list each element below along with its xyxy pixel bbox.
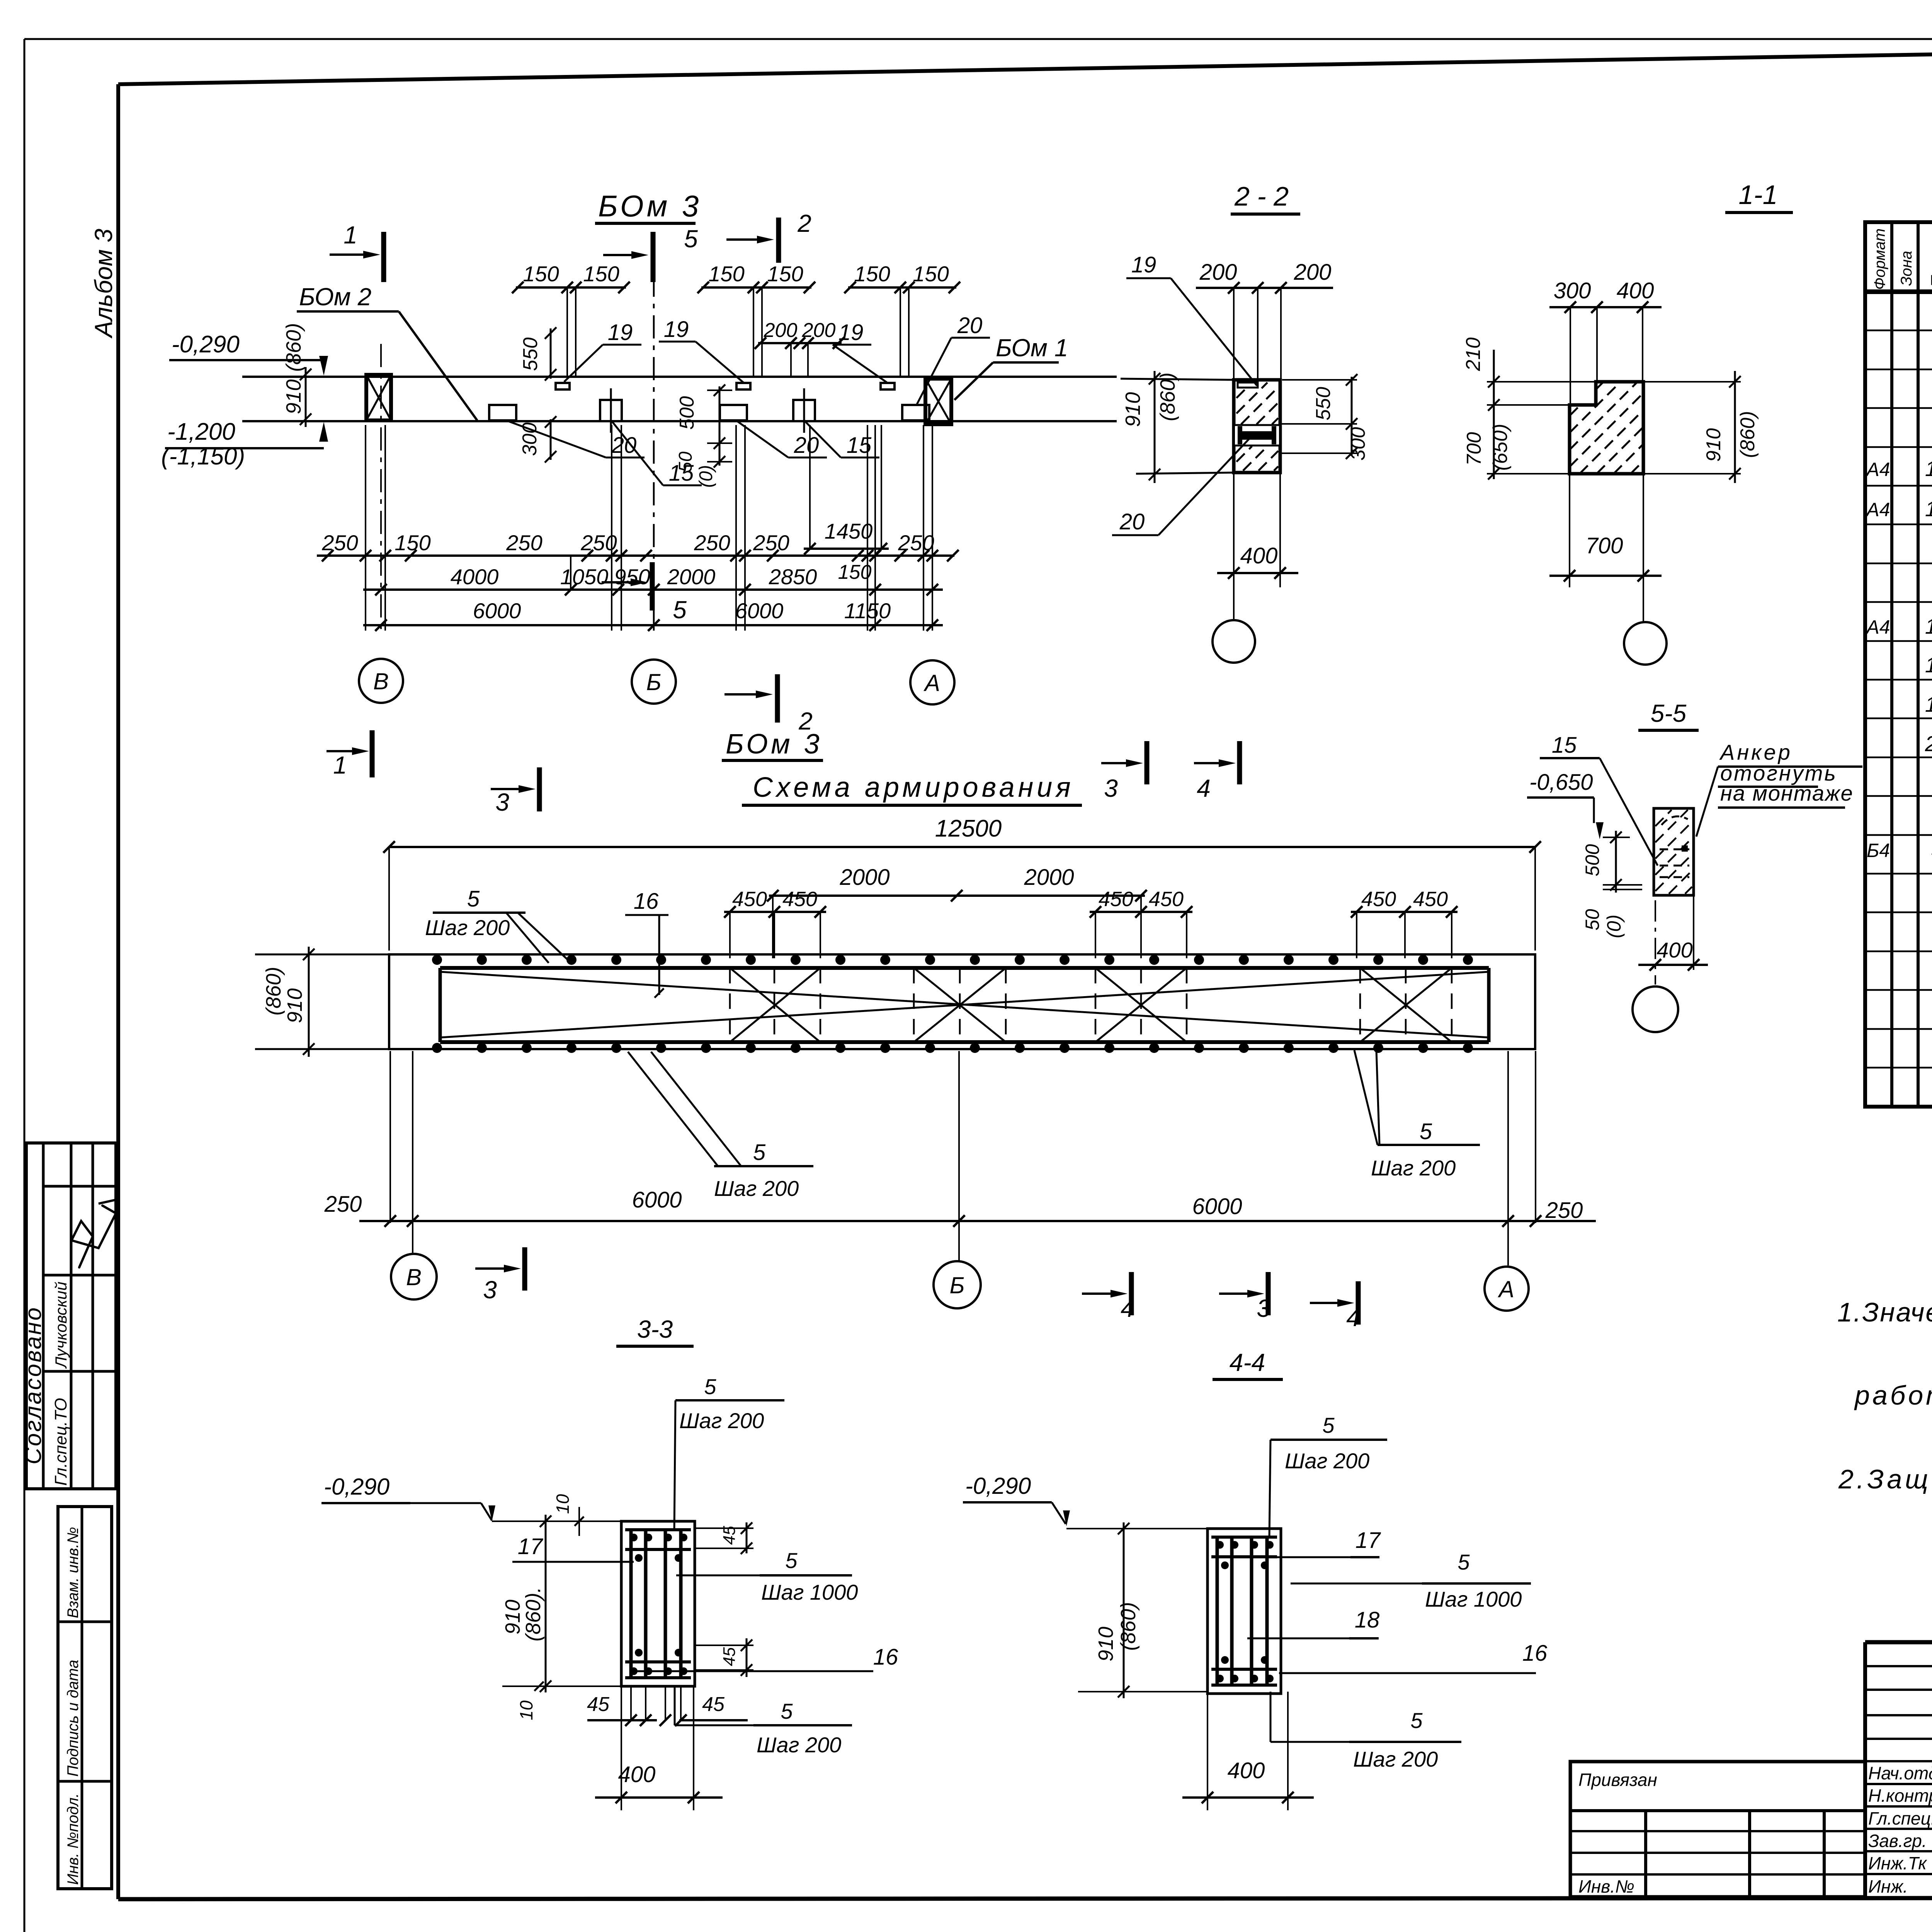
section 5-5 anchor dashes	[1660, 849, 1689, 850]
vertical dim 910 (860) plan left	[305, 367, 307, 427]
svg-text:1: 1	[344, 221, 357, 249]
svg-text:6000: 6000	[473, 599, 521, 623]
svg-text:450: 450	[782, 888, 817, 911]
svg-text:2000: 2000	[667, 565, 716, 589]
svg-text:(860): (860)	[1117, 1602, 1140, 1651]
vertical dim 500 / 50(0)	[719, 386, 721, 466]
schema reinforcement cage bars	[440, 966, 1489, 970]
svg-text:910: 910	[283, 988, 306, 1023]
svg-text:500: 500	[676, 396, 698, 430]
section 5-5 dim 500	[1603, 837, 1630, 838]
svg-text:550: 550	[1312, 387, 1335, 420]
svg-text:1150: 1150	[844, 599, 891, 623]
extension lines to section 2-2	[1121, 379, 1234, 380]
schema extension verticals at axes	[389, 1051, 391, 1223]
spec table row lines	[1865, 330, 1932, 332]
left stamp group 2 (inventory)	[58, 1507, 112, 1889]
section 3-3 dim 910 (860)	[545, 1515, 547, 1692]
svg-text:Шаг 200: Шаг 200	[1371, 1156, 1456, 1180]
extension verticals below beam	[365, 425, 366, 631]
svg-text:20: 20	[794, 433, 819, 458]
svg-text:5: 5	[1458, 1550, 1470, 1574]
svg-text:12500: 12500	[935, 815, 1002, 842]
svg-text:5: 5	[1420, 1119, 1432, 1144]
svg-text:Б: Б	[646, 669, 661, 695]
schema long diagonal bars	[440, 972, 1489, 1037]
svg-text:А4: А4	[1865, 499, 1890, 520]
axis circle В	[359, 659, 403, 703]
svg-text:17: 17	[518, 1534, 544, 1559]
axis circle А	[910, 660, 954, 704]
dim row 2 (4000/1050/950/2000/2850)	[363, 588, 943, 591]
svg-text:20: 20	[1119, 509, 1145, 534]
svg-text:15: 15	[669, 461, 694, 486]
svg-text:550: 550	[519, 337, 542, 371]
svg-text:(0): (0)	[696, 465, 716, 488]
svg-text:50: 50	[1582, 909, 1603, 930]
embedded plate 19 (x3)	[556, 383, 570, 389]
svg-text:Б4: Б4	[1867, 840, 1890, 861]
svg-text:(860): (860)	[262, 967, 285, 1015]
svg-text:3-3: 3-3	[637, 1315, 673, 1343]
svg-text:1450: 1450	[825, 519, 873, 543]
svg-text:10: 10	[553, 1494, 573, 1514]
svg-text:Шаг 1000: Шаг 1000	[1425, 1587, 1522, 1611]
svg-text:3: 3	[1104, 774, 1118, 802]
svg-text:Гл.спец.: Гл.спец.	[1868, 1808, 1932, 1828]
svg-text:5: 5	[781, 1699, 793, 1723]
spec table frame	[1865, 222, 1932, 1107]
svg-text:5: 5	[1410, 1708, 1423, 1733]
svg-text:Шаг 200: Шаг 200	[714, 1176, 799, 1201]
svg-text:4-4: 4-4	[1230, 1349, 1265, 1376]
Привязан strip table	[1570, 1762, 1865, 1897]
svg-text:1.Значения в скобках для о: 1.Значения в скобках для открытого спосо…	[1837, 1297, 1932, 1327]
svg-text:250: 250	[1545, 1198, 1583, 1223]
section 4-4 dim 910 (860)	[1123, 1522, 1125, 1698]
svg-text:(650): (650)	[1489, 424, 1512, 471]
svg-text:910: 910	[1094, 1627, 1117, 1662]
svg-text:250: 250	[324, 1192, 362, 1217]
schema X cross panels	[730, 968, 820, 1042]
svg-text:Нач.отд.: Нач.отд.	[1868, 1763, 1932, 1783]
svg-text:250: 250	[753, 531, 789, 555]
section 2-2 plate 19 notch	[1238, 383, 1258, 388]
svg-text:19: 19	[608, 320, 633, 345]
svg-text:(860).: (860).	[522, 1587, 545, 1641]
svg-text:450: 450	[1361, 888, 1396, 911]
schema left extension lines	[255, 954, 389, 956]
svg-text:Схема армирования: Схема армирования	[753, 772, 1074, 803]
svg-text:5: 5	[467, 886, 480, 912]
axis circle Б	[632, 660, 676, 704]
svg-text:250: 250	[694, 531, 730, 555]
section 1-1 dim 700 (650)	[1487, 473, 1570, 474]
svg-text:1-1: 1-1	[1738, 180, 1777, 210]
schema stirrup dashed lines	[729, 968, 731, 1042]
svg-text:БОм 1: БОм 1	[996, 334, 1068, 362]
svg-text:БОм 2: БОм 2	[299, 283, 371, 311]
section 1-1 body (L-shape)	[1570, 382, 1643, 474]
section 4-4 stirrup bars	[1211, 1555, 1277, 1558]
svg-text:2000: 2000	[839, 865, 889, 890]
svg-text:Согласовано: Согласовано	[20, 1306, 46, 1464]
section 3-3 dim 45 (top right)	[695, 1527, 753, 1529]
svg-text:16: 16	[1522, 1641, 1548, 1666]
svg-text:20: 20	[1925, 731, 1932, 756]
svg-text:Формат: Формат	[1871, 228, 1888, 290]
spec table column lines	[1890, 222, 1893, 1107]
svg-text:17: 17	[1925, 497, 1932, 521]
svg-text:работ в сборно-монолитном в: работ в сборно-монолитном варианте.	[1854, 1380, 1932, 1410]
spec table header bottom line	[1865, 289, 1932, 294]
svg-text:6000: 6000	[1192, 1194, 1242, 1219]
svg-text:5: 5	[673, 596, 687, 624]
section 3-3 rebar dots	[630, 1534, 638, 1541]
svg-text:(860): (860)	[1156, 372, 1179, 421]
title block frame	[1865, 1640, 1932, 1645]
svg-text:400: 400	[1656, 938, 1692, 962]
svg-text:5-5: 5-5	[1651, 699, 1687, 727]
svg-text:450: 450	[1413, 888, 1448, 911]
svg-text:5: 5	[704, 1374, 716, 1399]
svg-text:16: 16	[873, 1645, 898, 1670]
svg-text:2850: 2850	[769, 565, 817, 589]
column box БОм2 with cross	[366, 375, 391, 420]
svg-text:910: 910	[1702, 428, 1725, 462]
svg-text:Инв. №подл.: Инв. №подл.	[65, 1793, 82, 1885]
svg-text:5: 5	[753, 1140, 766, 1165]
vertical dim 550	[550, 328, 552, 379]
schema beam outline	[389, 954, 1535, 1049]
section 3-3 dim 10 (bottom left)	[502, 1685, 621, 1687]
svg-text:910: 910	[282, 379, 305, 414]
svg-text:2000: 2000	[1024, 865, 1074, 890]
name row lines	[1865, 1783, 1932, 1785]
svg-text:400: 400	[1240, 543, 1278, 568]
svg-text:В: В	[406, 1264, 422, 1290]
svg-text:2.Защитный слой бетона для: 2.Защитный слой бетона для рабочей армат…	[1838, 1464, 1932, 1494]
schema bottom dim 250/6000/6000/250	[359, 1220, 1596, 1222]
svg-text:18: 18	[1355, 1607, 1380, 1633]
svg-text:5: 5	[684, 225, 698, 253]
svg-text:200: 200	[1294, 260, 1332, 285]
svg-text:5: 5	[785, 1548, 798, 1573]
section 5-5 body	[1654, 808, 1694, 895]
dim row 1 (250/150...)	[317, 554, 954, 557]
svg-text:А: А	[1498, 1276, 1514, 1302]
svg-text:А4: А4	[1865, 459, 1890, 480]
section 1-1 axis circle	[1624, 622, 1667, 665]
svg-text:19: 19	[664, 317, 689, 342]
svg-text:200: 200	[1199, 260, 1237, 285]
svg-text:Шаг 200: Шаг 200	[1285, 1449, 1369, 1473]
svg-text:2 - 2: 2 - 2	[1234, 181, 1289, 211]
svg-text:450: 450	[732, 888, 767, 911]
dim row 3 (6000/6000/1150)	[363, 624, 943, 626]
axis А dash-dot	[932, 429, 933, 634]
svg-text:150: 150	[913, 262, 949, 286]
signature squiggle	[71, 1206, 116, 1267]
svg-text:400: 400	[1617, 278, 1654, 303]
svg-text:Шаг 200: Шаг 200	[425, 915, 510, 940]
svg-text:10: 10	[516, 1700, 536, 1720]
svg-text:150: 150	[854, 262, 890, 286]
embedded plate 20 (x3)	[489, 405, 516, 420]
svg-text:210: 210	[1462, 337, 1485, 371]
svg-text:-1,200: -1,200	[167, 418, 235, 445]
svg-text:250: 250	[506, 531, 542, 555]
svg-text:БОм 3: БОм 3	[598, 189, 702, 223]
svg-text:200: 200	[764, 319, 798, 342]
svg-text:150: 150	[767, 262, 803, 286]
svg-text:20: 20	[957, 313, 983, 338]
svg-text:Шаг 1000: Шаг 1000	[761, 1580, 858, 1604]
svg-text:Шаг 200: Шаг 200	[1353, 1747, 1438, 1771]
svg-text:500: 500	[1582, 844, 1603, 876]
svg-text:18: 18	[1925, 614, 1932, 638]
svg-text:16: 16	[634, 889, 659, 914]
svg-text:5: 5	[1322, 1413, 1335, 1437]
svg-text:300: 300	[1347, 427, 1369, 461]
svg-text:15: 15	[1925, 653, 1932, 677]
svg-text:Шаг 200: Шаг 200	[757, 1733, 841, 1757]
plan beam top edge	[242, 376, 1117, 378]
schema rebar dots top	[432, 955, 442, 965]
svg-text:В: В	[373, 668, 389, 694]
svg-text:Шаг 200: Шаг 200	[679, 1408, 764, 1433]
svg-text:450: 450	[1149, 888, 1184, 911]
svg-text:Зона: Зона	[1898, 251, 1915, 286]
svg-text:150: 150	[838, 561, 872, 583]
plan beam bottom edge	[242, 420, 1117, 422]
svg-text:-0,290: -0,290	[172, 331, 240, 358]
svg-text:300: 300	[519, 422, 541, 456]
section 3-3 dim 45 (bottom right)	[695, 1645, 753, 1646]
svg-text:400: 400	[1228, 1758, 1265, 1783]
svg-text:А: А	[923, 670, 940, 696]
svg-text:1050: 1050	[560, 565, 609, 589]
schema axis circle В	[391, 1254, 437, 1299]
svg-text:15: 15	[1552, 733, 1577, 758]
svg-text:3: 3	[483, 1276, 497, 1304]
svg-text:Зав.гр.: Зав.гр.	[1868, 1831, 1927, 1851]
svg-text:450: 450	[1099, 888, 1133, 911]
svg-text:А4: А4	[1865, 616, 1890, 638]
svg-text:4: 4	[1197, 774, 1211, 802]
section 3-3 body	[621, 1521, 695, 1686]
title block upper small rows (left part)	[1865, 1665, 1932, 1667]
svg-text:250: 250	[898, 531, 934, 555]
svg-text:250: 250	[580, 531, 617, 555]
left stamp group 1 (Согласовано)	[26, 1143, 116, 1489]
svg-text:300: 300	[1554, 278, 1591, 303]
schema axis circle Б	[934, 1261, 981, 1308]
svg-text:Поз.: Поз.	[1927, 252, 1932, 288]
section 5-5 axis + circle	[1655, 900, 1656, 985]
svg-text:6000: 6000	[735, 599, 784, 623]
section 4-4 body	[1207, 1529, 1281, 1694]
svg-text:19: 19	[1131, 252, 1156, 277]
svg-text:3: 3	[495, 788, 509, 816]
svg-text:Инв.№: Инв.№	[1578, 1876, 1634, 1896]
svg-text:(0): (0)	[1603, 915, 1625, 938]
svg-text:200: 200	[802, 319, 836, 342]
svg-text:4000: 4000	[451, 565, 499, 589]
svg-text:Б: Б	[949, 1272, 964, 1298]
svg-text:Взам. инв.№: Взам. инв.№	[65, 1527, 82, 1618]
inner drawing frame	[116, 84, 120, 1899]
schema vertical dim 910 (860)	[308, 947, 310, 1057]
svg-text:Лучковский: Лучковский	[52, 1282, 70, 1369]
axis В dash-dot	[380, 344, 382, 630]
svg-text:45: 45	[587, 1693, 610, 1716]
svg-text:45: 45	[720, 1526, 739, 1545]
section 2-2 embedded plate (item 20)	[1235, 425, 1279, 446]
section 2-2 vertical dim 550/300	[1282, 379, 1357, 381]
svg-text:-0,290: -0,290	[965, 1473, 1031, 1499]
section 1-1 dim 210	[1487, 381, 1596, 383]
section 2-2 body	[1234, 380, 1280, 473]
svg-text:Привязан: Привязан	[1578, 1770, 1657, 1790]
svg-text:-0,290: -0,290	[324, 1474, 389, 1500]
svg-text:150: 150	[583, 262, 619, 286]
svg-text:700: 700	[1586, 533, 1623, 558]
svg-text:19: 19	[838, 320, 864, 345]
svg-text:Инж.Тк: Инж.Тк	[1868, 1853, 1927, 1873]
svg-text:700: 700	[1463, 432, 1485, 466]
svg-text:2: 2	[797, 209, 811, 237]
svg-text:910: 910	[1121, 392, 1145, 427]
svg-text:150: 150	[708, 262, 744, 286]
svg-text:Альбом 3: Альбом 3	[90, 228, 117, 339]
svg-text:45: 45	[720, 1647, 739, 1666]
svg-text:250: 250	[321, 531, 358, 555]
svg-text:150: 150	[523, 262, 559, 286]
svg-text:(860): (860)	[282, 323, 305, 372]
svg-text:150: 150	[395, 531, 430, 555]
axis Б dash-dot	[653, 232, 655, 634]
column box БОм1 with cross	[925, 379, 951, 424]
section 4-4 rebar dots	[1216, 1541, 1224, 1549]
svg-text:Инж.: Инж.	[1868, 1876, 1908, 1896]
section 1-1 dim 910 (860) right	[1643, 381, 1741, 383]
svg-text:45: 45	[702, 1693, 725, 1716]
vertical dim 910 (860) between plan and section 2-2	[1154, 371, 1156, 483]
svg-text:19: 19	[1925, 692, 1932, 716]
svg-text:400: 400	[618, 1762, 656, 1787]
vertical dim 300	[550, 419, 552, 460]
svg-text:-0,650: -0,650	[1529, 770, 1593, 795]
svg-text:Н.контр.: Н.контр.	[1868, 1786, 1932, 1806]
svg-text:1: 1	[333, 751, 347, 779]
svg-text:(860): (860)	[1736, 411, 1759, 458]
svg-text:6000: 6000	[632, 1187, 682, 1213]
svg-text:910: 910	[501, 1600, 524, 1634]
svg-text:17: 17	[1355, 1528, 1381, 1553]
section 2-2 axis circle	[1213, 620, 1255, 663]
svg-text:16: 16	[1925, 456, 1932, 481]
svg-text:Гл.спец.ТО: Гл.спец.ТО	[51, 1398, 70, 1486]
embedded plate 15 (x2)	[600, 400, 622, 421]
outer thin paper border	[24, 38, 1932, 40]
section 3-3 stirrup bars	[625, 1548, 691, 1551]
svg-text:БОм 3: БОм 3	[726, 729, 823, 760]
svg-text:на монтаже: на монтаже	[1720, 781, 1854, 805]
svg-text:Подпись и дата: Подпись и дата	[65, 1660, 82, 1777]
schema axis circle А	[1485, 1267, 1529, 1311]
